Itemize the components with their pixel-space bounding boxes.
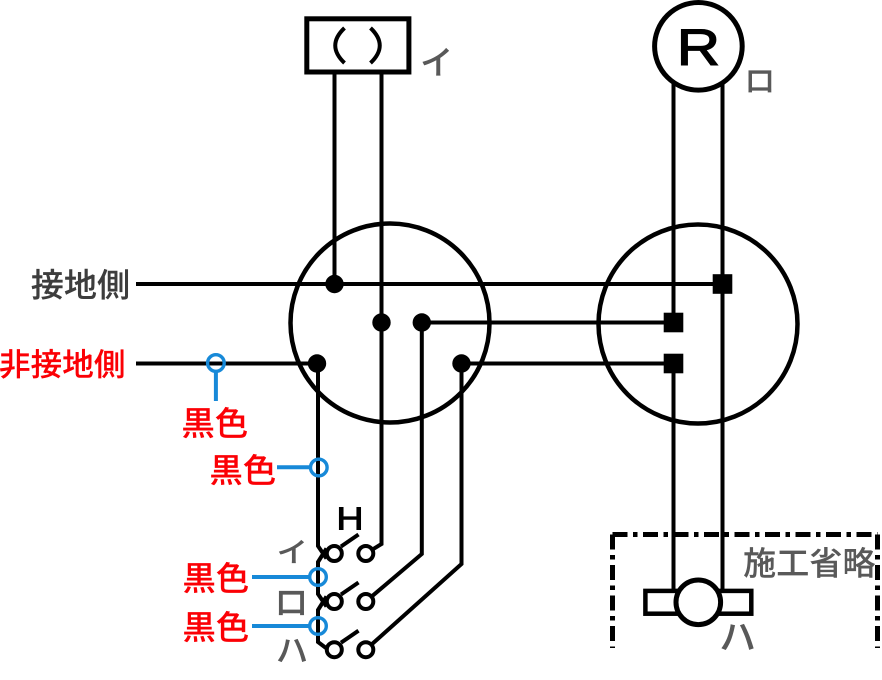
wire common black to switches [317, 364, 327, 559]
blue ring marker 3 [310, 569, 327, 586]
label 黒色 1 [183, 407, 247, 438]
switch ハ lever [341, 631, 359, 643]
switch イ right contact [358, 546, 373, 561]
wire switch ハ return up [372, 364, 462, 645]
lamp ha rectangle [645, 591, 751, 614]
switch イ lever [341, 535, 359, 547]
blue ring marker 4 [310, 618, 327, 635]
label 非接地側 [0, 349, 124, 379]
junction dot C switch ro return [413, 313, 431, 331]
junction dot E switch ha return [452, 354, 470, 372]
label 施工省略 [744, 547, 875, 578]
label ロ switch [279, 591, 304, 615]
junction box right [599, 225, 798, 424]
construction omitted dashed box [613, 532, 878, 537]
switch イ left contact [327, 546, 342, 561]
fluorescent lamp FL (イ) body [307, 19, 409, 72]
label ハ switch [278, 639, 306, 662]
wire switch イ to switch ロ jumper [318, 549, 327, 607]
label 黒色 2 [211, 454, 275, 485]
wire lamp R left lead [672, 83, 676, 313]
label ロ for lamp R [748, 70, 771, 92]
lamp ( ) symbol right paren [371, 28, 380, 63]
wire switch ロ to switch ハ jumper [318, 597, 327, 649]
switch ロ left contact [327, 594, 342, 609]
switch ロ right contact [358, 594, 373, 609]
switch ハ left contact [327, 642, 342, 657]
wire lamp FL left lead [333, 75, 337, 285]
label イ for lamp [422, 48, 449, 76]
lamp ha circle [676, 580, 721, 625]
wire non-grounded-side horizontal [136, 362, 317, 366]
construction omitted box left edge [610, 535, 615, 649]
blue line marker 3 [252, 575, 309, 579]
blue line marker 4 [252, 624, 309, 628]
wire switch-ha to lamp ha [462, 362, 674, 366]
lamp R letter [682, 30, 718, 65]
wire grounded-side horizontal [136, 282, 723, 286]
switch ハ right contact [358, 642, 373, 657]
junction dot B lamp FL return [372, 313, 390, 331]
junction square 1 grounded [713, 274, 733, 294]
junction dot A grounded/lamp FL [325, 275, 343, 293]
junction square 3 lamp ha [664, 354, 684, 374]
blue ring marker 1 on non-grounded wire [208, 355, 225, 372]
wire lamp FL right lead down to switch イ [373, 75, 382, 550]
construction omitted box right edge [875, 535, 880, 649]
wire switch ロ return up [372, 323, 422, 597]
label 黒色 3 [184, 562, 248, 593]
blue stem marker 1 [214, 373, 218, 402]
junction square 2 lamp R [664, 313, 684, 333]
label イ switch [279, 540, 304, 563]
switch ロ lever [341, 583, 359, 595]
junction dot D non-grounded [308, 354, 326, 372]
label ハ lamp [721, 624, 753, 650]
label 黒色 4 [184, 611, 248, 642]
blue ring marker 2 [311, 459, 328, 476]
junction box left [291, 224, 490, 423]
label H for switch イ [339, 507, 360, 529]
wire switch-ro to lamp R [422, 321, 674, 325]
blue line marker 2 [277, 465, 310, 469]
wire lamp R right lead down to lamp ha [721, 83, 725, 589]
wire square3 down to lamp ha [672, 373, 676, 589]
label 接地側 [32, 269, 128, 300]
lamp R (ロ) circle [655, 3, 743, 91]
lamp ( ) symbol left paren [335, 28, 344, 63]
